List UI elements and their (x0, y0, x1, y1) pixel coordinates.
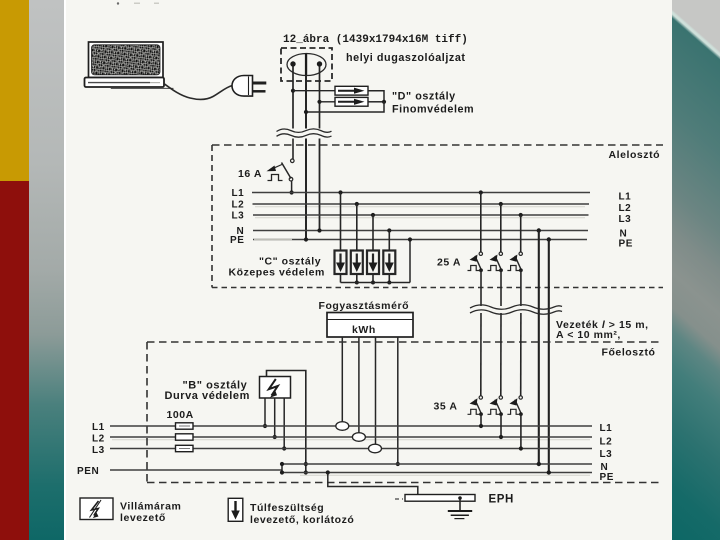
svg-text:12_ábra (1439x1794x16M tiff): 12_ábra (1439x1794x16M tiff) (283, 34, 468, 46)
svg-text:Túlfeszültség: Túlfeszültség (250, 502, 324, 514)
surge arrester C1 (335, 190, 347, 282)
svg-text:PE: PE (600, 472, 614, 483)
wire PE drop (548, 240, 550, 473)
legend surge symbol (228, 498, 243, 521)
svg-text:L1: L1 (619, 192, 632, 203)
junction N drop lower (537, 462, 541, 466)
junction PE to EPH (326, 470, 330, 474)
junction N drop (537, 228, 541, 232)
wire D return to PE (306, 102, 384, 112)
junction on PE wire (304, 110, 308, 114)
junction B1 rail N (304, 462, 308, 466)
svg-text:kWh: kWh (352, 324, 376, 336)
svg-text:"D" osztály: "D" osztály (392, 91, 456, 103)
wire L3 bus upper (253, 214, 589, 216)
wire meter L1 (341, 337, 343, 422)
junction D outputs (382, 100, 386, 104)
main distribution dashed box Foeloszto (147, 342, 663, 483)
junction B1 L3 (282, 446, 286, 450)
socket outlet ellipse (287, 54, 326, 76)
svg-text:PE: PE (230, 235, 244, 246)
junction EPH bar (458, 496, 462, 500)
CT oval L1 (336, 422, 349, 431)
svg-text:L3: L3 (619, 214, 632, 225)
junction PE drop (547, 237, 551, 241)
breaker 35A pole3 (507, 313, 523, 451)
kWh meter U1 (327, 313, 413, 338)
wire N bus upper (253, 230, 588, 232)
wire arrester return to PE (409, 240, 411, 283)
EPH dashes left (395, 498, 403, 500)
conductor break squiggle middle (470, 305, 562, 315)
wire meter L3 (375, 337, 377, 444)
fuse F3 (176, 445, 194, 451)
wire PE bus lower (282, 472, 592, 474)
wire D2 output (368, 101, 384, 103)
junction PEN PE (280, 470, 284, 474)
surge arrester C3 (367, 213, 379, 285)
wire meter N (397, 337, 399, 464)
svg-text:helyi dugaszolóaljzat: helyi dugaszolóaljzat (346, 52, 466, 64)
junction 16A to L1 (290, 190, 294, 194)
svg-text:Finomvédelem: Finomvédelem (392, 104, 474, 116)
breaker 25A pole2 (488, 202, 503, 306)
junction B1 L2 (273, 435, 277, 439)
legend lightning glyph (90, 500, 102, 518)
svg-text:Durva védelem: Durva védelem (165, 390, 250, 402)
breaker 35A pole1 (468, 313, 484, 428)
wire socket N to bus (319, 139, 321, 231)
socket pin right (317, 61, 322, 66)
scan ghost lines (112, 207, 590, 476)
EPH equipotential bar (405, 495, 475, 502)
junction socket N to bus (317, 228, 321, 232)
wire L1 bus lower (110, 425, 592, 427)
socket earth pin bar (305, 54, 307, 76)
svg-text:PEN: PEN (77, 466, 99, 477)
junction PEN N (280, 462, 284, 466)
wire D1 output (368, 91, 384, 102)
surge arrester B1 box (260, 377, 291, 399)
wire socket L down (292, 67, 294, 129)
wire meter L2 (358, 337, 360, 433)
svg-text:Közepes védelem: Közepes védelem (229, 267, 325, 279)
breaker 16A (267, 139, 295, 193)
wire N drop (538, 231, 540, 465)
svg-text:L1: L1 (232, 188, 245, 199)
svg-text:L3: L3 (92, 445, 105, 456)
junction B1 rail PE (304, 470, 308, 474)
wire L3 bus lower (110, 448, 592, 450)
svg-text:L2: L2 (92, 434, 105, 445)
junction socket PE to bus (304, 237, 308, 241)
wire L1 bus upper (252, 192, 590, 194)
CT oval L3 (369, 444, 382, 453)
svg-text:levezető: levezető (120, 512, 166, 524)
svg-text:16 A: 16 A (238, 168, 262, 180)
wire to arrester D2 (320, 101, 336, 103)
svg-text:Fogyasztásmérő: Fogyasztásmérő (319, 300, 410, 312)
surge arrester C2 (351, 202, 363, 285)
svg-text:Főelosztó: Főelosztó (602, 347, 656, 359)
svg-text:L3: L3 (232, 211, 245, 222)
wire EPH to ground (459, 499, 461, 511)
wire PEN (110, 469, 282, 471)
svg-text:A < 10 mm²,: A < 10 mm², (556, 329, 621, 341)
laptop computer (85, 42, 174, 88)
wire B1 to L3 (283, 398, 285, 449)
mains plug (232, 76, 266, 97)
CT oval L2 (352, 433, 365, 442)
lightning glyph B1 (269, 379, 278, 398)
wire to arrester D1 (293, 90, 335, 92)
wire socket N down (319, 67, 321, 129)
wire B1 to L2 (274, 398, 276, 437)
socket pin left (290, 61, 295, 66)
wire L2 bus upper (253, 203, 590, 205)
wire L2 bus lower (110, 436, 592, 438)
conductor break squiggle top (277, 129, 332, 137)
svg-text:Alelosztó: Alelosztó (609, 149, 661, 161)
svg-text:25 A: 25 A (437, 257, 461, 269)
svg-text:PE: PE (619, 239, 633, 250)
wire socket PE down (305, 75, 307, 129)
svg-text:L2: L2 (232, 200, 245, 211)
wire PEN split (281, 464, 283, 473)
svg-text:EPH: EPH (489, 494, 514, 506)
breaker 25A pole1 (468, 190, 483, 306)
junction B1 L1 (263, 424, 267, 428)
junction meter N (396, 462, 400, 466)
surge arrester D1 (335, 86, 368, 95)
svg-text:L1: L1 (92, 422, 105, 433)
svg-text:L3: L3 (600, 449, 613, 460)
faded PE segment (254, 239, 292, 241)
wire N bus lower (282, 463, 592, 465)
legend lightning arrester symbol (80, 498, 113, 520)
scan specks (117, 2, 159, 4)
svg-text:100A: 100A (167, 409, 194, 421)
svg-text:L2: L2 (600, 437, 613, 448)
svg-text:L1: L1 (600, 423, 613, 434)
breaker 25A pole3 (507, 213, 522, 306)
svg-text:levezető, korlátozó: levezető, korlátozó (250, 514, 354, 526)
surge arrester C4 (383, 228, 395, 284)
junction arrester return PE (408, 237, 412, 241)
wire B1 top rail (267, 371, 306, 473)
surge arrester D2 (335, 97, 368, 106)
junction PE drop lower (547, 470, 551, 474)
fuse F2 (176, 434, 194, 440)
junction EPH (416, 494, 420, 498)
breaker 35A pole2 (488, 313, 504, 439)
fuse F1 100A (176, 423, 194, 429)
junction on N wire (317, 100, 321, 104)
junction on L wire (291, 89, 295, 93)
legend surge arrow (231, 501, 240, 520)
wire arrester common (341, 282, 411, 284)
wire PE bus upper (253, 239, 587, 241)
power cord (165, 84, 233, 100)
wire socket PE to bus (305, 139, 307, 240)
svg-text:Villámáram: Villámáram (120, 501, 181, 513)
wire B1 to L1 (264, 398, 266, 426)
ground symbol (448, 511, 472, 519)
svg-text:35 A: 35 A (434, 401, 458, 413)
sub-distribution dashed box Aleloszto (212, 145, 663, 288)
socket outlet dashed box (281, 48, 332, 81)
svg-text:L2: L2 (619, 203, 632, 214)
wire PE to EPH (328, 473, 418, 497)
